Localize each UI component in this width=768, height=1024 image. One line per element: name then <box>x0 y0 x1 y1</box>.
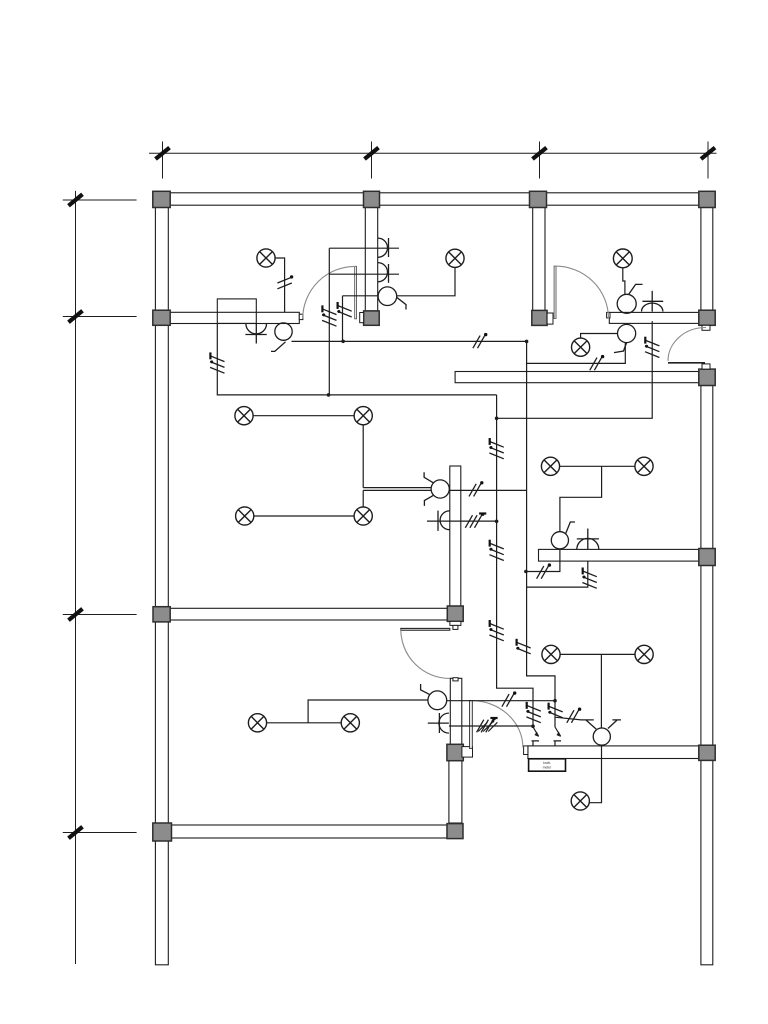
door leaf 2 <box>554 266 556 318</box>
junction dot y700 x555 <box>553 699 557 703</box>
switch S6 <box>551 522 575 549</box>
jamb right of column M5 <box>462 747 473 758</box>
jamb right of column C2 <box>547 313 553 324</box>
junction dot y726 x533 <box>531 724 535 728</box>
column D2 <box>699 310 715 325</box>
wall middle lower <box>449 761 462 824</box>
hash G8 <box>489 441 503 458</box>
lamp L4 <box>572 338 590 356</box>
hash G14 <box>516 642 530 654</box>
wall C vertical <box>533 205 545 311</box>
wire lamps L13 L14 to S7 <box>266 700 428 723</box>
dimension tick top B <box>365 148 379 159</box>
junction dot x329 bottom <box>327 393 331 397</box>
lamp L6 <box>354 407 372 425</box>
flag G6 <box>601 355 604 358</box>
arrow dot G21 <box>492 720 495 723</box>
semicircle H5 <box>438 511 450 531</box>
door leaf 4 <box>401 628 450 630</box>
wall row4 <box>168 825 447 838</box>
door arc 3 right wall <box>668 327 706 360</box>
wall middle upper <box>450 466 461 606</box>
lamp L3 <box>613 249 632 268</box>
semicircle H2 <box>378 238 389 257</box>
column B1 <box>364 191 380 207</box>
wall left <box>155 193 168 965</box>
hash G21 <box>478 722 497 731</box>
flag G5 <box>484 333 487 336</box>
wire lamp4 to S4 <box>581 334 618 339</box>
columns <box>153 191 715 841</box>
door arc 5 <box>471 701 523 748</box>
dimension tick left 4 <box>69 827 83 838</box>
switch S2 <box>378 287 406 310</box>
wall top row1 <box>153 193 715 205</box>
lamp L7 <box>236 507 254 525</box>
dimension line top <box>149 142 717 179</box>
wall row3 <box>168 608 447 620</box>
flag G17 <box>547 703 549 710</box>
column D4 <box>699 549 715 566</box>
wire S5 right <box>449 489 526 491</box>
dimension tick left 3 <box>69 609 83 620</box>
wall middle mid <box>450 678 462 745</box>
jamb below column D2 <box>702 325 710 330</box>
hash G20 <box>489 623 503 640</box>
flag G11 <box>489 540 491 547</box>
switch S8 <box>581 720 621 745</box>
hash G6 <box>590 358 602 371</box>
junction dot riser497 y418 <box>495 417 499 421</box>
hash G7 <box>645 340 659 357</box>
wire lamp1 to wall <box>275 258 285 312</box>
lamp L10 <box>635 457 653 475</box>
dimension tick top D <box>701 148 715 159</box>
switch blade 1 <box>532 727 540 746</box>
lamp L13 <box>248 714 266 732</box>
switch blade 2 <box>554 727 562 746</box>
wire x652 drop <box>497 321 653 418</box>
switch S1 <box>271 323 292 352</box>
hash G9 <box>469 484 481 497</box>
lamp L14 <box>341 714 359 732</box>
door leaf 3 <box>668 362 705 364</box>
walls <box>153 193 715 965</box>
semicircle H1 <box>245 323 266 343</box>
flag G1 <box>290 275 293 278</box>
wire S8 drop to lamp15 <box>589 745 601 803</box>
junction dot riser527 top <box>525 340 529 344</box>
lamp L2 <box>446 249 464 267</box>
svg-text:kraft-: kraft- <box>543 761 551 765</box>
flag G12 <box>548 563 551 566</box>
wire H5 right <box>427 520 497 522</box>
hash G4 <box>337 305 351 317</box>
switch S7 <box>421 684 447 710</box>
hash G13 <box>582 571 596 588</box>
junction dot riser497 y521 <box>495 520 499 524</box>
hash G2 <box>210 356 224 373</box>
wire x329 riser <box>328 248 330 395</box>
wire antenna extension <box>555 717 581 720</box>
wire lamps y654 <box>560 654 636 728</box>
hash G15 <box>502 694 514 707</box>
jamb left end wall y747 <box>524 746 528 755</box>
lamp L11 <box>542 645 560 663</box>
flag G7 <box>644 337 646 344</box>
flag G9 <box>480 481 483 484</box>
switch S4 <box>614 324 636 352</box>
door jambs <box>299 312 710 757</box>
wall right upper <box>701 193 713 325</box>
wall right lower <box>701 369 713 965</box>
flag G20 <box>489 620 491 627</box>
column A4 <box>153 823 172 841</box>
junction dot x343 on y341 <box>341 340 345 344</box>
wire lamps L7 L8 <box>254 515 355 517</box>
dimension tick top C <box>533 148 547 159</box>
closet rectangle room A1 <box>217 299 256 324</box>
flag G13 <box>582 568 584 575</box>
column A3 <box>153 607 170 622</box>
hash G5 <box>473 336 485 349</box>
dimension tick top A <box>156 148 170 159</box>
wall row2 right <box>609 312 699 323</box>
lamp L9 <box>541 457 559 475</box>
wire lamps L5 L6 <box>253 416 431 508</box>
lamp L12 <box>635 645 653 663</box>
wire y700 right <box>447 700 556 702</box>
column M4 <box>447 824 463 839</box>
door leaf 5 <box>470 701 473 749</box>
flag G2 <box>209 352 211 359</box>
jamb above column D3 <box>702 364 710 369</box>
wire x217 riser <box>217 324 496 395</box>
wire lamps y466 <box>559 466 635 531</box>
column M5 <box>447 744 463 760</box>
flag G4 <box>337 302 339 309</box>
flag G18 <box>578 708 581 711</box>
jamb below column M3 step <box>453 625 458 629</box>
door leaf 1 <box>355 266 357 318</box>
column D5 <box>699 745 715 760</box>
semicircle H4 <box>642 291 664 312</box>
jamb below column M3 <box>450 621 461 625</box>
door arc 1 <box>303 266 356 318</box>
wire H7 right to blade <box>449 725 533 727</box>
hash G18 <box>567 710 579 723</box>
flag G8 <box>489 438 491 445</box>
switch S3 <box>617 284 642 313</box>
column M3 <box>447 606 463 621</box>
column D1 <box>699 191 715 207</box>
dimension tick left 2 <box>69 311 83 322</box>
hash G3 <box>322 309 336 326</box>
flag G16 <box>526 702 528 709</box>
hash G16 <box>526 705 540 722</box>
semicircle H3 <box>378 263 389 283</box>
column D3 <box>699 369 715 385</box>
lamp L8 <box>354 507 372 525</box>
wire switch S2 through wall <box>343 296 379 342</box>
door arc 4 <box>401 629 450 678</box>
svg-text:meter: meter <box>543 766 553 770</box>
wire S6 drop <box>527 549 560 572</box>
wire riser x497 <box>497 395 533 727</box>
flag G15 <box>513 691 516 694</box>
column A1 <box>153 191 170 207</box>
lamp L1 <box>257 249 275 267</box>
dimension line left <box>63 191 137 964</box>
wall y549 <box>539 549 700 561</box>
lamp L15 <box>571 792 589 810</box>
wall y747 <box>528 746 699 759</box>
jamb row2-left opening <box>299 314 303 319</box>
column C1 <box>530 191 547 207</box>
semicircle H6 <box>577 529 599 550</box>
wire H6 drop <box>527 561 588 587</box>
wall B vertical <box>365 205 377 311</box>
semicircle H7 <box>428 713 449 733</box>
label box kraft meter <box>529 759 566 771</box>
flag G10 <box>481 513 484 516</box>
wall y371 long <box>455 372 699 383</box>
hash G1 <box>277 277 291 289</box>
jamb left of column B2 <box>360 313 364 323</box>
switch S5 <box>424 472 449 506</box>
jamb row2-right wall start <box>607 312 610 318</box>
wire stem H2 <box>329 247 399 249</box>
wire y341 main <box>292 340 527 342</box>
wire stem H3 <box>329 273 399 275</box>
wire lamp2 to S2 <box>396 267 455 296</box>
hash G12 <box>537 566 549 579</box>
wire y362 corridor <box>527 343 626 364</box>
flag G14 <box>515 639 517 646</box>
wire riser x527 <box>527 341 555 727</box>
dimension tick left 1 <box>69 194 83 205</box>
door arc 2 <box>555 266 608 318</box>
wall row2 left <box>168 312 299 323</box>
junction dot riser527 y571 <box>524 570 528 574</box>
wire lamp3 drop <box>623 268 625 295</box>
jamb top of middle mid wall <box>453 678 458 681</box>
column B2 <box>364 311 380 325</box>
hash G21 <box>477 720 493 733</box>
column A2 <box>153 310 170 325</box>
flag G21 <box>492 717 495 720</box>
lamp L5 <box>235 407 253 425</box>
column C2 <box>532 310 547 325</box>
hash G17 <box>548 706 562 718</box>
flag G3 <box>321 305 323 312</box>
hash G11 <box>489 543 503 560</box>
hash G10 <box>465 515 481 528</box>
